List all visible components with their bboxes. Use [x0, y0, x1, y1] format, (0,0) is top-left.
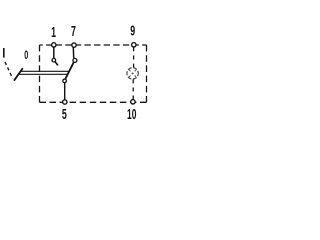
svg-text:0: 0 — [24, 49, 28, 62]
actuator alternate position (dashed) — [5, 62, 13, 79]
wire terminal 1 to fixed contact — [53, 47, 55, 58]
fixed contact circle (throw I) — [52, 58, 56, 62]
enclosure dashed box right edge — [146, 45, 148, 102]
wire terminal 9 to lamp (dashed) — [133, 47, 135, 67]
actuator lever (position 0, solid) — [14, 68, 23, 81]
enclosure dashed box bottom edge — [40, 101, 147, 103]
position label I — [3, 48, 5, 58]
wire terminal 7 to contact — [72, 47, 74, 58]
svg-text:7: 7 — [71, 24, 76, 40]
moving blade — [65, 62, 74, 79]
pivot circle — [63, 79, 67, 83]
enclosure dashed box left edge — [39, 45, 41, 102]
svg-text:5: 5 — [62, 107, 67, 123]
terminal 10 circle — [131, 100, 135, 104]
mechanical linkage upper bar — [21, 70, 70, 72]
terminal 7 circle — [72, 43, 76, 47]
wire lamp to terminal 10 (dashed) — [132, 79, 134, 99]
mechanical linkage lower bar — [18, 73, 67, 75]
enclosure dashed box top edge — [40, 44, 147, 46]
wire pivot to terminal 5 — [64, 83, 66, 100]
terminal 5 circle — [63, 100, 67, 104]
svg-text:1: 1 — [51, 25, 56, 41]
terminal 9 circle — [132, 43, 136, 47]
terminal 1 circle — [52, 43, 56, 47]
lamp cross stroke 2 — [129, 70, 136, 77]
moving blade end circle — [73, 58, 77, 62]
svg-text:9: 9 — [130, 24, 135, 40]
svg-text:10: 10 — [127, 107, 136, 123]
fixed contact tick — [55, 62, 58, 66]
lamp cross stroke 1 — [129, 70, 136, 77]
lamp circle — [127, 68, 138, 79]
